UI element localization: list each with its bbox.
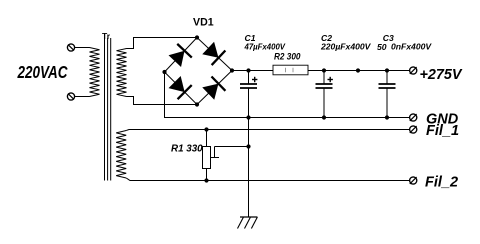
terminal Fil_2 xyxy=(410,177,417,184)
label R1 330 xyxy=(171,143,203,154)
label R2 300 xyxy=(274,51,301,62)
junction: C1 bottom / ground stem xyxy=(246,115,250,119)
capacitor C1 xyxy=(240,71,257,118)
diode VD1.4 (bottom-right arm) xyxy=(197,71,232,105)
terminal Fil_1 xyxy=(410,126,417,133)
label C2 value 220uFx400V xyxy=(320,41,372,51)
wire: Fil_1 line xyxy=(126,130,409,131)
label C3 xyxy=(383,33,394,43)
capacitor C2 xyxy=(316,71,333,118)
diode VD1.2 (top-right arm) xyxy=(197,38,232,71)
wire: R1 wiper tap to ground stem xyxy=(211,147,249,158)
svg-text:VD1: VD1 xyxy=(193,17,214,29)
svg-text:R1 330: R1 330 xyxy=(171,143,203,154)
label GND xyxy=(426,111,459,127)
terminal: AC input top xyxy=(67,44,74,51)
wire: ground stem (C1 bottom to ground symbol) xyxy=(248,88,250,217)
label Fil_2 xyxy=(425,174,458,190)
label C1 xyxy=(245,33,256,43)
wire: Fil_2 line xyxy=(126,178,409,181)
junction: tap on ground stem xyxy=(246,144,250,148)
junction: C3 top xyxy=(385,68,389,72)
resistor R2 xyxy=(273,65,308,75)
node: bridge bottom (AC) xyxy=(195,102,199,106)
label C1 value 47uFx400V xyxy=(244,41,287,51)
diode VD1.1 (left-top arm) xyxy=(165,38,198,73)
wire: bridge left node down to ground rail xyxy=(164,72,166,118)
svg-text:Tr: Tr xyxy=(102,31,111,41)
svg-text:50: 50 xyxy=(377,42,387,52)
label Tr xyxy=(102,31,111,41)
ground xyxy=(238,217,258,229)
wire: +275V rail, bridge to R2 xyxy=(232,70,273,72)
junction: R1 top on Fil_1 xyxy=(204,127,208,131)
wire: bottom AC terminal to primary xyxy=(75,96,90,98)
svg-text:Fil_2: Fil_2 xyxy=(425,174,458,190)
transformer T1 primary winding xyxy=(90,48,100,97)
junction: node on +275V rail xyxy=(356,68,360,72)
transformer secondary HV winding xyxy=(117,49,127,97)
label C3 value 50 0nFx400V xyxy=(377,41,432,52)
transformer filament winding xyxy=(116,131,126,179)
label VD1 xyxy=(193,17,214,29)
node: bridge left (DC minus) xyxy=(162,70,166,74)
transformer core xyxy=(105,38,111,181)
node: bridge right (DC plus) xyxy=(230,68,234,72)
wire: top AC terminal to primary xyxy=(75,47,90,49)
wire: +275V rail, R2 to terminal xyxy=(308,70,410,72)
svg-text:+275V: +275V xyxy=(420,67,463,83)
label +275V xyxy=(420,67,463,83)
svg-text:47µFx400V: 47µFx400V xyxy=(244,41,287,51)
label C2 xyxy=(321,33,332,43)
wire: secondary top to bridge top node xyxy=(127,38,198,49)
wire: GND rail xyxy=(164,117,410,119)
capacitor C3 xyxy=(379,71,396,118)
terminal GND xyxy=(410,114,417,121)
wire: secondary bottom to bridge bottom node xyxy=(127,97,198,105)
junction: C1 top xyxy=(246,68,250,72)
junction: C2 bottom xyxy=(322,115,326,119)
terminal +275V xyxy=(410,67,417,74)
label Fil_1 xyxy=(426,123,459,139)
diode VD1.3 (left-bottom arm) xyxy=(165,72,198,105)
svg-text:220VAC: 220VAC xyxy=(17,62,68,82)
label 220VAC xyxy=(17,62,68,82)
svg-text:220µFx400V: 220µFx400V xyxy=(320,41,372,51)
svg-text:0nFx400V: 0nFx400V xyxy=(391,41,432,51)
svg-text:Fil_1: Fil_1 xyxy=(426,123,459,139)
resistor R1 (hum balance pot) xyxy=(203,130,211,181)
svg-text:R2 300: R2 300 xyxy=(274,51,301,62)
node: bridge top (AC) xyxy=(195,35,199,39)
junction: C2 top xyxy=(322,68,326,72)
junction: R1 bottom on Fil_2 xyxy=(204,178,208,182)
terminal: AC input bottom xyxy=(67,93,74,100)
junction: C3 bottom xyxy=(385,115,389,119)
